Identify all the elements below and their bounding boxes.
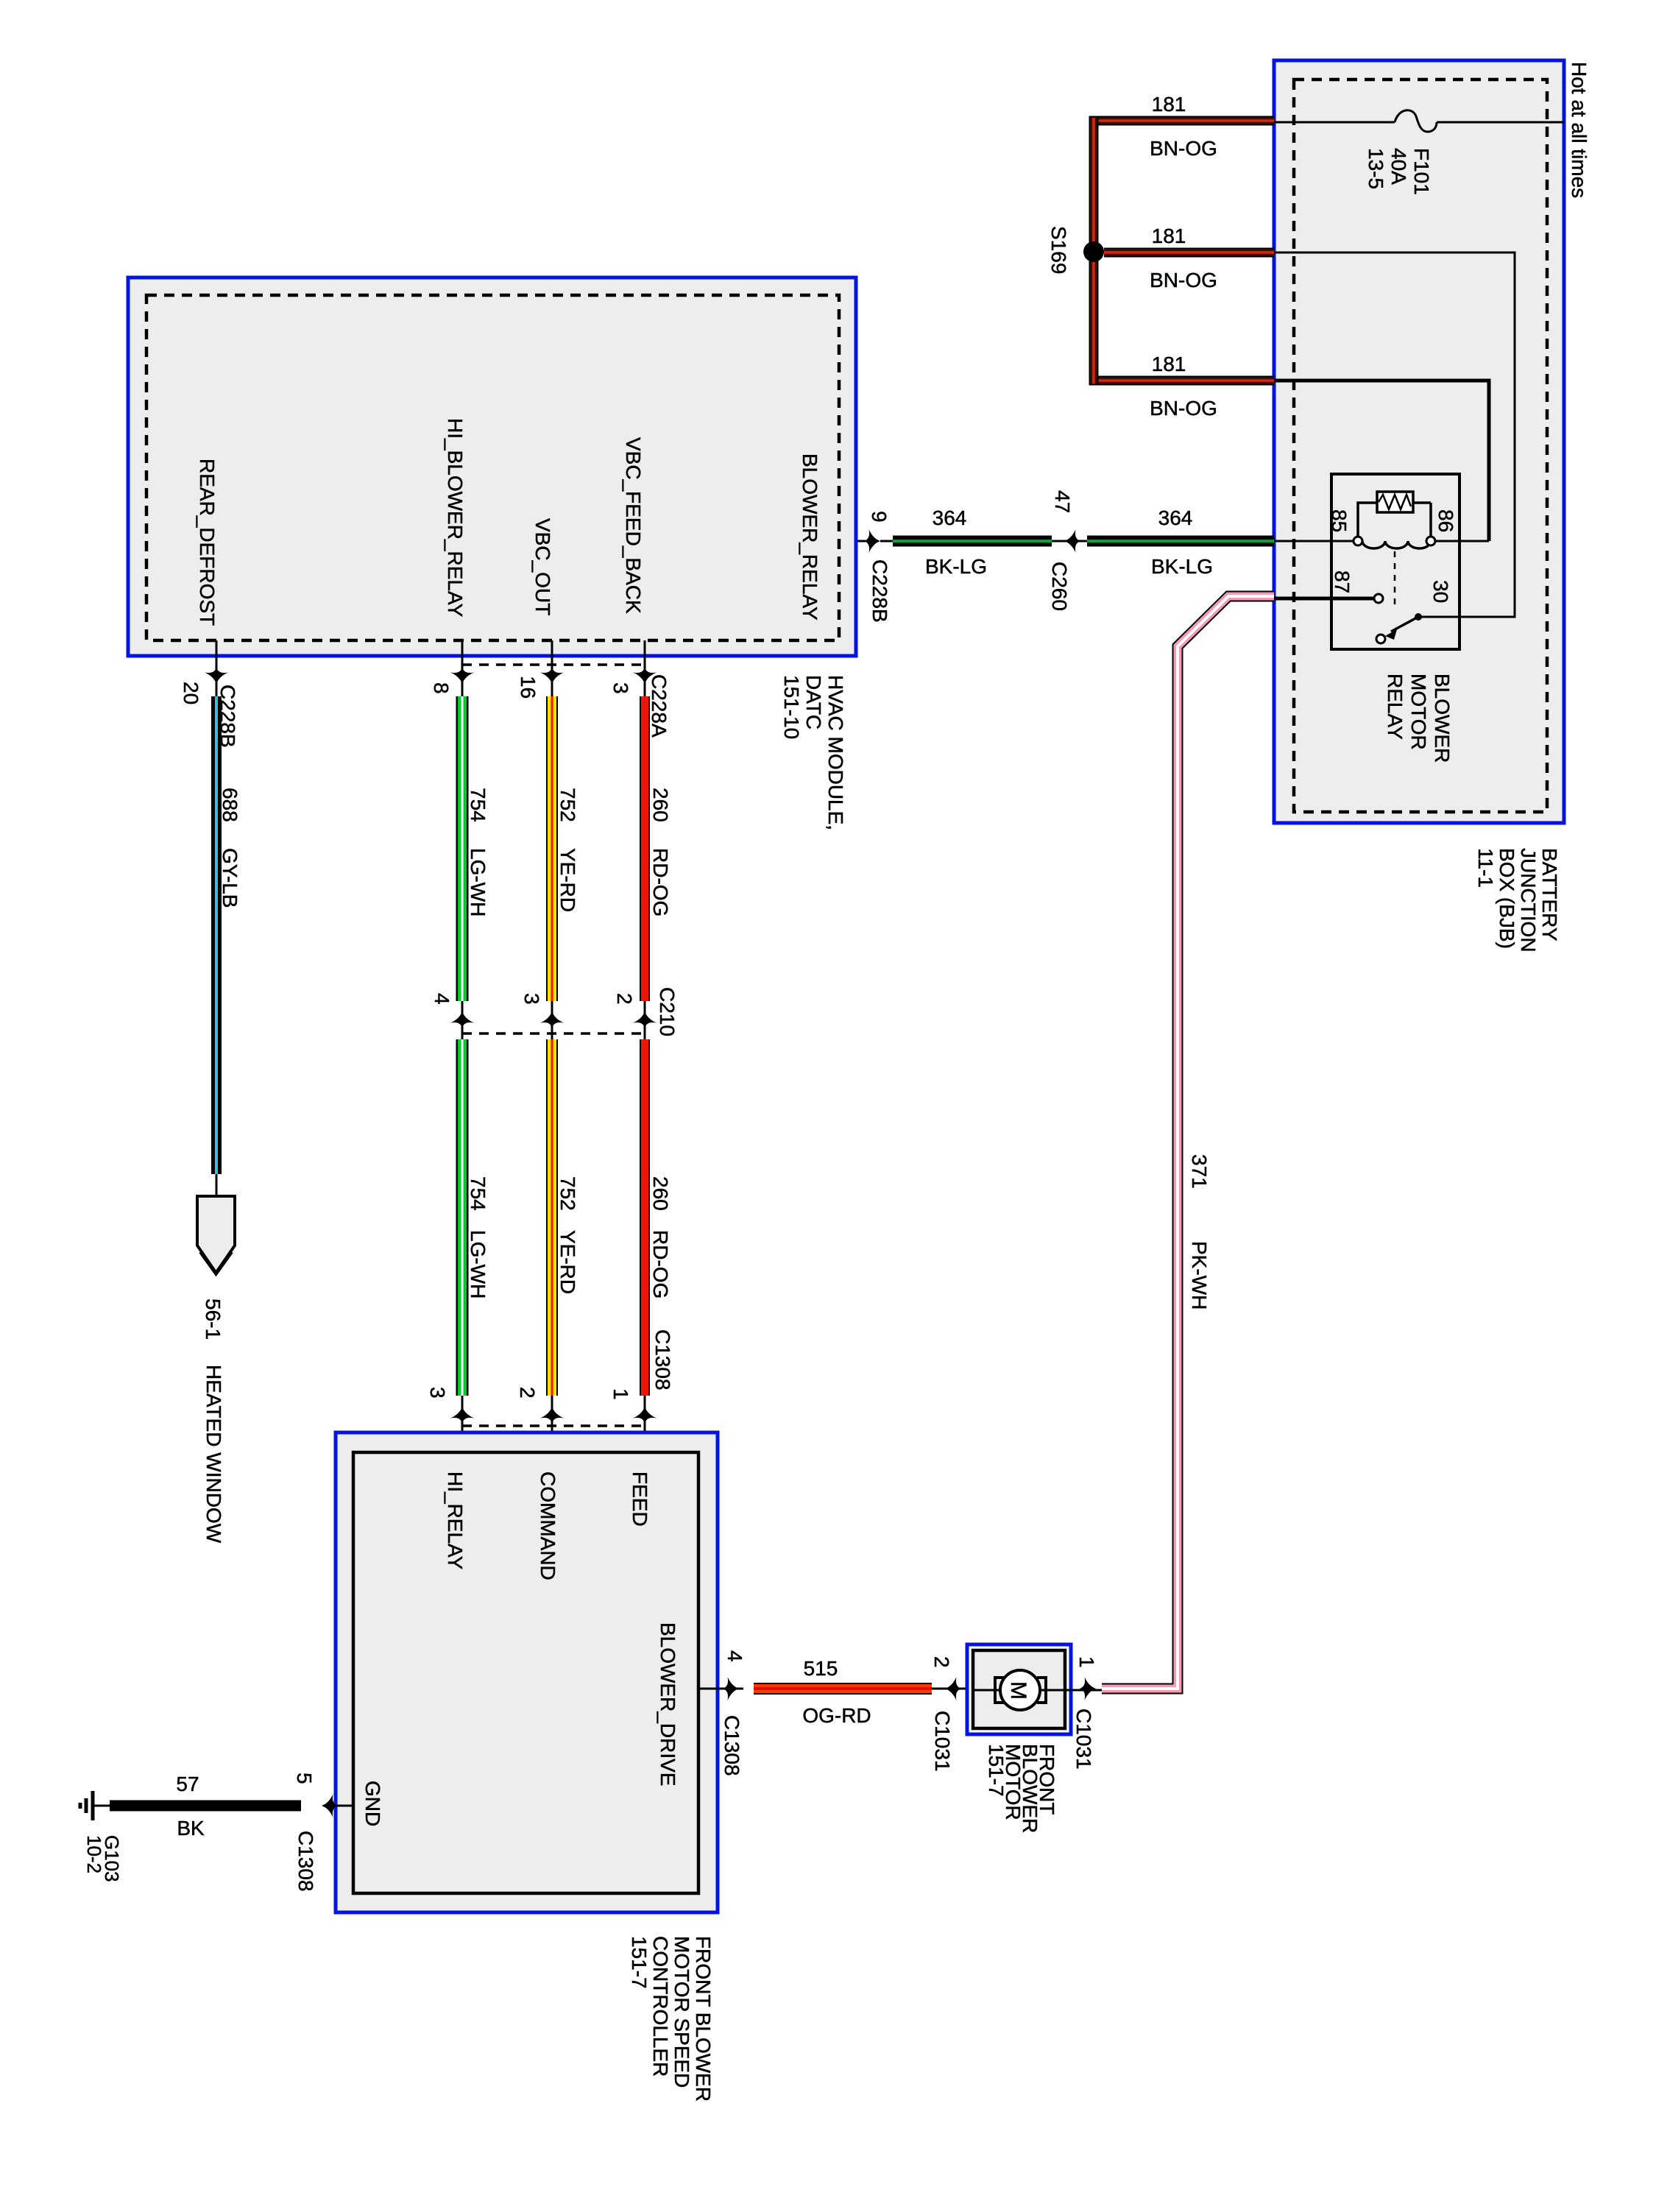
controller pin 1 C1308 (609, 1329, 674, 1452)
svg-text:BLOWER_DRIVE: BLOWER_DRIVE (657, 1622, 679, 1787)
svg-text:PK-WH: PK-WH (1188, 1241, 1211, 1310)
wire 371 PK-WH (1102, 596, 1274, 1689)
svg-text:OG-RD: OG-RD (802, 1704, 871, 1727)
svg-text:2: 2 (516, 1387, 539, 1399)
label: FRONT BLOWER MOTOR SPEED CONTROLLER 151-7 (628, 1936, 715, 2102)
splice S169 (1047, 226, 1104, 274)
controller pin 3 (426, 1387, 474, 1452)
controller pin 2 (516, 1387, 564, 1452)
svg-text:181: 181 (1152, 93, 1186, 116)
svg-text:10-2: 10-2 (83, 1835, 105, 1873)
connector C1031 pin 2 arrow (930, 1656, 969, 1772)
svg-text:C228B: C228B (868, 559, 891, 623)
svg-text:4: 4 (723, 1650, 746, 1662)
wire 752 YE-RD (lower segment) (546, 1039, 579, 1396)
wire from 181 to relay pin 30 (1274, 252, 1515, 617)
svg-text:HI_BLOWER_RELAY: HI_BLOWER_RELAY (444, 418, 467, 618)
svg-text:BLOWER: BLOWER (1431, 674, 1454, 763)
svg-text:LG-WH: LG-WH (467, 1230, 489, 1298)
svg-text:Hot at all times: Hot at all times (1568, 62, 1590, 198)
svg-text:YE-RD: YE-RD (556, 1230, 579, 1294)
controller pin 5 C1308 (GND) arrow (293, 1773, 353, 1892)
svg-text:85: 85 (1328, 509, 1351, 532)
wire 181 BN-OG (top, fuse feed) (1094, 93, 1274, 160)
HVAC pin 20 C228B (180, 640, 239, 748)
svg-text:BLOWER_RELAY: BLOWER_RELAY (799, 453, 821, 621)
svg-text:BATTERY: BATTERY (1538, 848, 1561, 941)
wire 754 LG-WH (lower segment) (456, 1039, 490, 1396)
svg-text:BN-OG: BN-OG (1150, 397, 1217, 420)
relay pin 85 (1328, 509, 1351, 532)
svg-text:C1308: C1308 (721, 1715, 743, 1776)
svg-text:260: 260 (649, 788, 672, 822)
connector C1031 pin 1 arrow (1072, 1656, 1098, 1770)
C210 pin 4 (431, 993, 474, 1039)
svg-text:2: 2 (613, 993, 636, 1005)
svg-text:F101: F101 (1410, 148, 1433, 195)
relay contact 87 terminal (1274, 594, 1383, 603)
svg-text:HVAC MODULE,: HVAC MODULE, (824, 675, 847, 830)
HVAC net HI_BLOWER_RELAY (444, 418, 467, 618)
svg-text:BK-LG: BK-LG (1151, 555, 1213, 578)
svg-text:C1031: C1031 (931, 1711, 954, 1772)
svg-text:151-7: 151-7 (628, 1936, 651, 1989)
wire from 181 to relay coil pin 86 (1274, 381, 1489, 541)
svg-text:752: 752 (556, 1176, 579, 1211)
svg-text:M: M (1006, 1681, 1030, 1700)
wire 515 OG-RD (754, 1657, 932, 1727)
svg-text:181: 181 (1152, 353, 1186, 375)
svg-text:C210: C210 (656, 987, 679, 1036)
relay pin 30 (1429, 580, 1452, 603)
svg-text:RELAY: RELAY (1384, 674, 1406, 740)
svg-text:3: 3 (426, 1387, 449, 1399)
wire BK-LG inside BJB to coil pin 85 (1274, 540, 1489, 543)
svg-text:20: 20 (180, 682, 202, 704)
svg-text:C228A: C228A (648, 674, 670, 738)
svg-text:VBC_FEED_BACK: VBC_FEED_BACK (622, 437, 645, 614)
HVAC net VBC_OUT (531, 518, 554, 615)
svg-text:C1308: C1308 (294, 1831, 317, 1892)
HVAC net VBC_FEED_BACK (622, 437, 645, 614)
front blower motor speed controller box (336, 1432, 718, 1912)
connector C210 dashed line (462, 1032, 645, 1035)
relay pin 87 (1331, 570, 1354, 593)
wire 260 RD-OG (upper segment) (640, 696, 672, 1001)
connector C228A dashed line (462, 663, 645, 666)
HVAC pin 16 (517, 640, 564, 699)
svg-text:LG-WH: LG-WH (467, 848, 489, 916)
relay coil (1354, 537, 1435, 548)
svg-text:3: 3 (609, 682, 632, 694)
connector pin 9 C228B arrow (864, 511, 891, 623)
relay resistor (1358, 492, 1431, 537)
wire 181 BN-OG (middle) (1104, 225, 1274, 291)
wire 364 BK-LG (right segment) (1087, 506, 1274, 578)
relay pin 86 (1434, 509, 1457, 532)
svg-text:DATC: DATC (802, 675, 825, 729)
C210 pin 3 (520, 993, 564, 1039)
label: BATTERY JUNCTION BOX (BJB) 11-1 (1474, 848, 1561, 953)
svg-text:1: 1 (609, 1388, 632, 1400)
svg-text:YE-RD: YE-RD (556, 848, 579, 912)
svg-text:S169: S169 (1047, 226, 1070, 274)
wire 688 GY-LB (211, 696, 241, 1174)
controller net GND (361, 1781, 384, 1826)
wire 181 BN-OG vertical trunk (1089, 116, 1099, 386)
svg-text:13-5: 13-5 (1365, 148, 1387, 189)
svg-text:CONTROLLER: CONTROLLER (649, 1936, 672, 2077)
svg-text:5: 5 (293, 1773, 316, 1784)
svg-text:JUNCTION: JUNCTION (1517, 848, 1540, 953)
HVAC net BLOWER_RELAY (799, 453, 821, 621)
wire 754 LG-WH (upper segment) (456, 696, 490, 1001)
svg-text:4: 4 (431, 993, 453, 1005)
svg-text:HI_RELAY: HI_RELAY (444, 1471, 467, 1570)
svg-text:56-1: 56-1 (202, 1298, 224, 1340)
fuse F101 40A 13-5 (1274, 110, 1564, 195)
controller net BLOWER_DRIVE (657, 1622, 679, 1787)
svg-text:3: 3 (520, 993, 543, 1005)
label: HVAC MODULE, DATC 151-10 (780, 675, 847, 830)
battery junction box (BJB) (1274, 60, 1564, 823)
svg-text:1: 1 (1075, 1656, 1098, 1668)
relay name: BLOWER MOTOR RELAY (1384, 674, 1454, 763)
svg-text:47: 47 (1051, 490, 1074, 513)
svg-text:VBC_OUT: VBC_OUT (531, 518, 554, 615)
svg-text:371: 371 (1188, 1154, 1211, 1189)
svg-text:BK-LG: BK-LG (925, 555, 987, 578)
blower motor relay box (1331, 474, 1459, 649)
HVAC pin 8 (430, 640, 474, 696)
controller pin 4 C1308 arrow (698, 1650, 746, 1776)
wire 181 BN-OG (bottom) (1094, 353, 1274, 420)
svg-text:752: 752 (556, 788, 579, 822)
controller net HI_RELAY (444, 1471, 467, 1570)
controller net FEED (629, 1471, 651, 1527)
svg-text:C1308: C1308 (651, 1329, 674, 1391)
svg-text:754: 754 (467, 788, 489, 822)
connector C260 arrow pin 47 (1048, 490, 1087, 611)
svg-text:FEED: FEED (629, 1471, 651, 1527)
relay actuation dashed link (1394, 551, 1396, 607)
svg-text:REAR_DEFROST: REAR_DEFROST (196, 459, 219, 626)
HVAC module box (128, 278, 856, 656)
svg-text:BN-OG: BN-OG (1150, 269, 1217, 291)
svg-text:2: 2 (930, 1656, 953, 1668)
svg-text:BK: BK (177, 1817, 205, 1840)
svg-text:FRONT BLOWER: FRONT BLOWER (692, 1936, 715, 2102)
svg-text:181: 181 (1152, 225, 1186, 247)
label: Hot at all times (1568, 62, 1590, 198)
svg-text:HEATED WINDOW: HEATED WINDOW (202, 1365, 225, 1544)
controller net COMMAND (537, 1471, 559, 1580)
C210 pin 2 (613, 987, 679, 1039)
wire 752 YE-RD (upper segment) (546, 696, 579, 1001)
svg-text:GND: GND (361, 1781, 384, 1826)
svg-text:151-10: 151-10 (780, 675, 803, 739)
wire stub BLOWER_RELAY out of HVAC (839, 540, 866, 543)
HVAC pin 3 C228A (609, 640, 670, 738)
svg-text:40A: 40A (1387, 148, 1410, 185)
svg-text:BN-OG: BN-OG (1150, 137, 1217, 160)
wire 57 BK (110, 1773, 301, 1840)
svg-text:8: 8 (430, 682, 453, 694)
svg-text:16: 16 (517, 676, 539, 699)
svg-text:30: 30 (1429, 580, 1452, 603)
ground G103 10-2 (80, 1791, 123, 1882)
svg-text:364: 364 (1158, 506, 1193, 529)
label: FRONT BLOWER MOTOR 151-7 (985, 1744, 1058, 1833)
motor M symbol (973, 1670, 1104, 1710)
svg-text:BOX (BJB): BOX (BJB) (1496, 848, 1518, 949)
front blower motor box (967, 1644, 1071, 1734)
HVAC net REAR_DEFROST (196, 459, 219, 626)
svg-text:C1031: C1031 (1072, 1709, 1095, 1770)
svg-text:688: 688 (219, 788, 241, 822)
svg-text:151-7: 151-7 (985, 1744, 1008, 1797)
svg-text:87: 87 (1331, 570, 1354, 593)
svg-text:MOTOR: MOTOR (1407, 674, 1430, 750)
svg-text:86: 86 (1434, 509, 1457, 532)
relay switch arm (1376, 613, 1422, 643)
svg-text:C260: C260 (1048, 562, 1071, 611)
svg-text:57: 57 (176, 1773, 199, 1795)
wire 260 RD-OG (lower segment) (640, 1039, 672, 1396)
off-page connector HEATED WINDOW 56-1 (197, 1174, 235, 1544)
svg-text:515: 515 (804, 1657, 838, 1680)
svg-text:11-1: 11-1 (1474, 848, 1497, 888)
connector C1308 dashed line (462, 1424, 645, 1427)
svg-text:MOTOR SPEED: MOTOR SPEED (670, 1936, 693, 2088)
svg-text:GY-LB: GY-LB (219, 848, 241, 908)
wire 364 BK-LG (left segment) (880, 506, 1052, 578)
svg-text:754: 754 (467, 1176, 489, 1211)
svg-text:260: 260 (649, 1176, 672, 1211)
svg-text:COMMAND: COMMAND (537, 1471, 559, 1580)
svg-text:RD-OG: RD-OG (649, 1230, 672, 1298)
svg-text:364: 364 (933, 506, 967, 529)
svg-text:RD-OG: RD-OG (649, 848, 672, 916)
svg-text:9: 9 (868, 511, 891, 523)
